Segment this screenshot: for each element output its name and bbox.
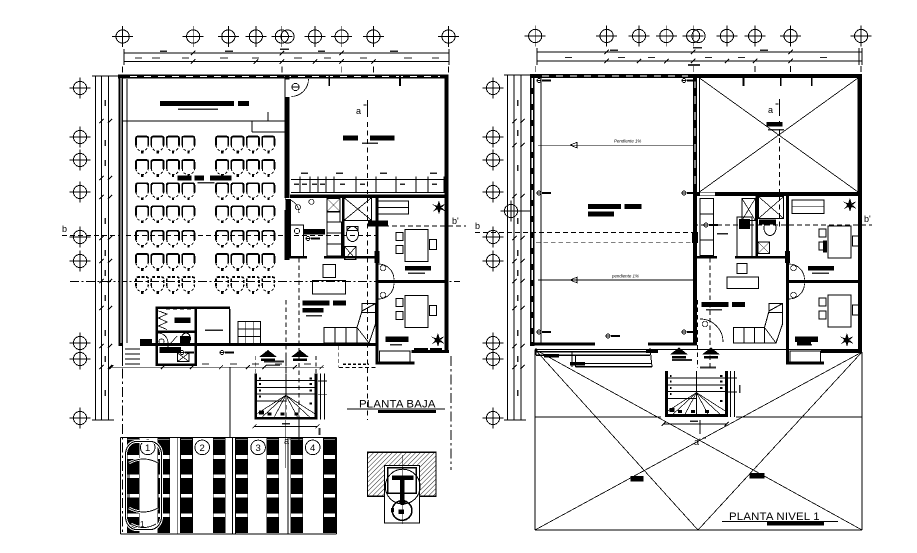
X room label bar: [766, 122, 784, 131]
roof diagonal TL-BR: [535, 350, 862, 531]
svg-text:4: 4: [310, 443, 315, 454]
bottom wall main left plan: [140, 343, 378, 346]
outer wall left left plan: [119, 75, 124, 347]
door leaf right plan central wall: [692, 232, 698, 243]
window ticks SUM top wall: [329, 75, 400, 87]
stairs left plan: [254, 374, 317, 420]
stage line classroom: [123, 120, 285, 122]
svg-text:3: 3: [255, 443, 260, 454]
foyer vertical wall: [229, 309, 231, 343]
stair bottom dim line: [252, 423, 319, 428]
central wall x695 right plan: [693, 74, 697, 345]
classroom right wall: [285, 75, 290, 261]
detail center line: [402, 455, 404, 524]
foyer wall segment: [197, 307, 230, 310]
detail side tick: [391, 508, 394, 512]
fridge X box: [327, 199, 340, 212]
kitchen counter black left plan: [286, 199, 292, 256]
bedroom divider wall right plan: [789, 280, 862, 283]
porch side line: [122, 346, 124, 366]
sofa right plan: [734, 304, 783, 344]
balcony box bedroom2: [380, 348, 428, 363]
labels around stair right plan: [646, 350, 716, 368]
tent marks above stair right plan: [670, 348, 688, 359]
bottom wall right-wing step1 right plan: [786, 362, 824, 365]
door circles kitchen top: [285, 199, 314, 234]
door leaf right plan wall x787: [785, 251, 790, 263]
balcony box right plan: [790, 342, 820, 362]
table set bedroom2 right plan: [819, 295, 860, 327]
inner face line left wall right plan: [540, 78, 542, 343]
kitchen side wall right plan x756: [756, 196, 759, 258]
kitchen side wall x342: [342, 198, 345, 258]
door arcs bedrooms: [379, 264, 395, 299]
dimension lines top left plan: [124, 49, 449, 66]
terrace label bars right plan: [588, 204, 641, 216]
door arc kitchen right plan: [700, 319, 723, 342]
label bar bedroom2: [385, 336, 408, 345]
WC right plan: [764, 221, 776, 236]
label above stair: [264, 361, 284, 367]
stair bottom dim right plan: [662, 421, 729, 426]
despensa label bar: [303, 229, 325, 241]
blackboard bar classroom: [160, 101, 249, 106]
bedroom divider wall y281: [378, 280, 449, 283]
black bar beside shower: [368, 220, 388, 226]
sofa L living room: [324, 304, 376, 344]
grid dashline row G left plan: [70, 281, 460, 283]
sink box with X: [345, 247, 357, 260]
dashed patio rect: [339, 346, 377, 367]
bottom wall right-wing step2 right plan: [821, 350, 862, 353]
sink X right plan: [758, 242, 770, 254]
plant bottom right plan: [840, 333, 854, 347]
svg-text:b: b: [62, 224, 67, 234]
parking space numbers: [140, 440, 320, 455]
hanging ticks below top dims left plan: [123, 67, 449, 73]
section a label and dashed line left plan: [356, 100, 368, 420]
horizontal dim line patio y367: [109, 363, 324, 369]
door arc into SUM room: [292, 79, 309, 97]
parapet planter right plan: [536, 348, 652, 367]
shower box with X: [344, 198, 372, 221]
outer wall right left plan: [445, 75, 449, 354]
plant top right corner right plan: [843, 198, 857, 212]
grid bubbles left column right plan: [483, 78, 531, 429]
dimension lines top right plan: [537, 47, 862, 65]
right-wing vertical wall x377: [376, 198, 379, 365]
classroom center label bars: [178, 176, 232, 184]
X-room bottom wall right plan: [697, 192, 862, 196]
title PLANTA NIVEL 1: [722, 511, 838, 526]
svg-text:b: b: [475, 221, 480, 231]
a-prime label left plan: [284, 420, 321, 468]
grid bubbles top row left plan: [112, 26, 459, 47]
closet zigzag hangers: [159, 311, 168, 330]
bottom wall right-wing step1: [377, 362, 415, 365]
stair right dim ticks: [318, 374, 327, 420]
closet shelf top bedroom1: [378, 201, 409, 214]
svg-text:1: 1: [140, 520, 145, 529]
svg-text:a': a': [694, 437, 701, 447]
blackboard label: [178, 109, 218, 111]
detail small circle: [392, 501, 412, 521]
plant bedroom2 corner: [431, 333, 445, 347]
property dashline x122: [122, 350, 124, 534]
roof diagonal BL-TR: [535, 352, 862, 530]
closet label bar: [174, 318, 190, 323]
detail big circle: [385, 469, 420, 504]
desk living room: [313, 265, 346, 294]
dashed line mid terrace: [536, 241, 693, 243]
foyer label: [205, 329, 223, 331]
grid bubbles left column left plan: [70, 78, 91, 429]
misc small labels right plan: [606, 64, 718, 338]
bottom wall left room right plan: [530, 343, 595, 346]
closet room walls: [156, 307, 198, 367]
parking outline: [120, 437, 336, 534]
stair right dim ticks right plan: [728, 371, 741, 417]
hanging ticks below top dims right plan: [535, 66, 861, 72]
car in space 1: [126, 442, 162, 530]
wall between SUM and rooms y196: [290, 195, 449, 198]
living room label bars: [303, 301, 347, 317]
roof line BC-TR: [698, 352, 862, 530]
parking strips: [127, 439, 335, 533]
svg-text:pendiente 1%: pendiente 1%: [611, 274, 639, 279]
roof black bars: [630, 476, 643, 481]
dashed section verticals kitchen: [286, 258, 299, 420]
section line b-b dashed left plan: [62, 216, 466, 236]
vertical line x230 patio: [229, 367, 231, 437]
table set bedroom2: [396, 296, 437, 328]
dimension lines left right plan: [504, 75, 530, 420]
label bar bedroom2 right plan: [795, 336, 818, 345]
small labels under bottom wall: [180, 351, 194, 355]
kitchen counters right plan: [700, 198, 713, 255]
table set bedroom1: [396, 230, 437, 262]
grid table foyer: [238, 321, 261, 344]
closet shelf top right plan: [792, 200, 824, 213]
wc room fixtures: [160, 333, 191, 362]
tent marks above stair left plan: [259, 350, 277, 361]
inner face line left wall: [126, 79, 128, 343]
outer wall top left plan: [118, 75, 449, 79]
a-prime label right plan: [694, 420, 706, 447]
door leaf black wall x377: [375, 251, 380, 263]
svg-text:b': b': [864, 214, 871, 224]
despensa cabinet left: [288, 225, 303, 258]
dashline x451 bottom right: [450, 356, 452, 470]
kitchen table right plan: [727, 264, 759, 289]
svg-text:2: 2: [200, 443, 205, 454]
pendiente arrow 2: [538, 274, 693, 283]
door leaf black bottom-right rooms: [430, 348, 442, 352]
corner labels right plan: [537, 79, 551, 83]
stair dashed top: [256, 356, 316, 373]
detail frame box: [388, 468, 417, 494]
rooms vertical wall x787 right plan: [786, 196, 789, 364]
bottom wall mid right plan: [648, 343, 697, 346]
kitchen band wall right plan y256: [697, 256, 786, 259]
pendiente arrow 1: [538, 139, 693, 148]
svg-text:Pendiente 1%: Pendiente 1%: [614, 139, 641, 144]
outer wall left right plan: [530, 74, 535, 346]
door arc wc: [158, 333, 168, 344]
roof line BC-TL: [535, 350, 698, 531]
svg-text:a: a: [768, 105, 773, 115]
title PLANTA BAJA: [347, 399, 445, 414]
section a label right plan: [768, 99, 780, 228]
label bar bedroom1: [405, 266, 431, 274]
double height X room: [700, 78, 859, 192]
detail drawing hatched block: [367, 452, 436, 496]
outer wall right right plan: [858, 74, 862, 352]
stairs right plan: [665, 371, 728, 417]
kitchen cabinets column: [327, 212, 342, 256]
bottom wall right-wing step2: [412, 350, 450, 353]
section line b-b dashed right plan: [475, 214, 872, 233]
detail small square: [399, 510, 405, 515]
roof mid horizontal line: [535, 416, 661, 418]
table set bedroom1 right plan: [819, 226, 860, 258]
extra tiny dimension digits left plan: [135, 51, 439, 59]
WC left plan rooms: [347, 227, 359, 242]
classroom chairs 7 rows: [136, 137, 274, 294]
svg-text:a: a: [356, 106, 361, 116]
closet top dashes: [166, 308, 192, 310]
window ticks X room: [744, 74, 812, 86]
roof outline right plan: [535, 350, 862, 531]
dashed section verticals right plan: [698, 258, 711, 368]
kitchen label bars right plan: [702, 302, 745, 311]
grid bubbles top row right plan: [525, 26, 872, 47]
shower X right plan: [759, 197, 784, 219]
entry steps bottom-left: [125, 339, 152, 364]
plant bedroom1 corner: [432, 201, 446, 215]
tall cabinet with X right plan: [737, 198, 755, 256]
detail T shape: [392, 476, 414, 506]
label bar bedroom1 right plan: [808, 240, 834, 274]
svg-text:b': b': [452, 216, 459, 226]
black bar under shower right plan: [759, 220, 776, 225]
door arcs bedrooms right plan: [789, 264, 805, 299]
outer wall top right plan: [530, 74, 862, 78]
detail inner box: [385, 466, 420, 523]
kitchen label right plan: [717, 233, 728, 234]
dimension lines left left plan: [92, 76, 118, 420]
kitchen band wall y256: [288, 256, 377, 259]
SUM room label bars: [343, 136, 394, 145]
svg-text:1: 1: [145, 443, 150, 454]
dimension row y179: [291, 173, 448, 193]
podium step classroom: [252, 112, 285, 132]
